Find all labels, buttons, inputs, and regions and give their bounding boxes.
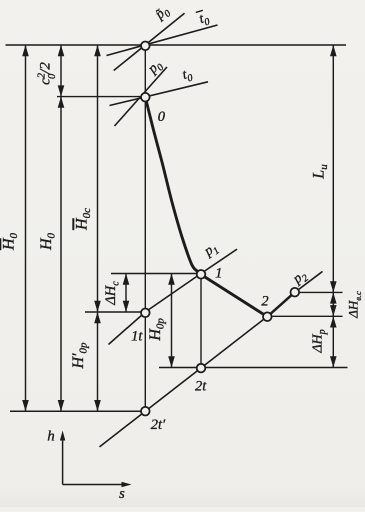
svg-text:2t: 2t [195, 379, 207, 395]
svg-text:2t′: 2t′ [151, 417, 166, 433]
svg-text:2: 2 [261, 293, 268, 309]
svg-text:0: 0 [158, 109, 166, 125]
svg-text:1: 1 [215, 265, 222, 281]
svg-text:1t: 1t [131, 329, 143, 345]
svg-text:h: h [47, 429, 55, 445]
svg-text:s: s [119, 486, 125, 502]
